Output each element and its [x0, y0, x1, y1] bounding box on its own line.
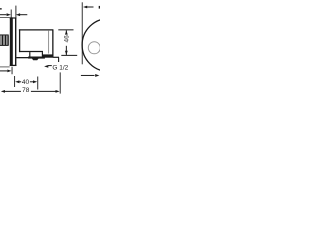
dim 78 left line: [5, 90, 21, 92]
outlet left wall: [29, 52, 31, 57]
in-wall fitting top edge: [0, 16, 10, 18]
dim 40 left extension line: [14, 76, 16, 87]
dim top-left value fragment: [0, 8, 2, 10]
dim 78 right line: [31, 90, 56, 92]
dim 40 left stub: [19, 81, 21, 83]
dim top-left right tail line: [20, 14, 28, 16]
body seam line: [48, 31, 50, 54]
wall surface extension line: [11, 67, 13, 74]
dim 78 right arrowhead: [56, 90, 60, 93]
escutcheon plate front edge: [15, 17, 17, 66]
hose outlet front circle: [88, 42, 100, 54]
front view tangent extension line: [81, 2, 83, 64]
dim 46 line lower: [65, 46, 67, 55]
G 1/2 leader tail: [48, 65, 52, 67]
dim top-left tail line: [0, 14, 6, 16]
dim 46 top extension line: [58, 29, 73, 31]
dim 40 left arrowhead: [15, 80, 19, 83]
wall hatch top line: [0, 34, 9, 36]
svg-text:G 1/2: G 1/2: [52, 64, 68, 71]
dim top-left left extension line: [10, 10, 12, 18]
wall hatch stripes: [1, 35, 8, 45]
body right edge: [52, 30, 54, 58]
dim 46 down arrowhead: [65, 51, 68, 55]
dim top-left right extension line: [15, 6, 17, 18]
top dim left arrowhead: [83, 6, 87, 9]
escutcheon plate top edge: [10, 17, 17, 19]
top dim line: [87, 6, 94, 8]
svg-text:78: 78: [22, 87, 30, 94]
dim top-left right-pointing arrowhead: [7, 13, 11, 16]
body top edge: [19, 29, 54, 31]
dim top-left left-pointing arrowhead: [16, 13, 20, 16]
bottom right dim arrowhead: [95, 74, 99, 77]
body left edge: [19, 29, 21, 52]
dim 40 right arrowhead: [33, 80, 37, 83]
dim 78 left arrowhead: [1, 90, 5, 93]
outlet dark band left: [28, 57, 45, 59]
svg-text:40: 40: [22, 79, 30, 86]
in-wall fitting bottom edge: [0, 66, 10, 68]
outlet right wall: [41, 52, 43, 57]
bottom right dim line: [81, 74, 95, 76]
dim 46 line upper: [65, 30, 67, 33]
wall surface arrow tail: [0, 70, 7, 72]
outlet dark band right: [43, 54, 54, 57]
wall hatch bottom line: [0, 44, 9, 46]
dim 40 right stub: [30, 81, 33, 83]
dim 46 up arrowhead: [65, 30, 68, 34]
svg-text:46: 46: [64, 35, 71, 43]
escutcheon front circle: [82, 19, 135, 72]
top dim text fragment: [99, 6, 100, 9]
dim 46 bottom extension line: [61, 54, 77, 56]
housing bottom edge right extension: [53, 56, 59, 58]
G 1/2 arrowhead: [44, 65, 48, 68]
body bottom edge: [19, 51, 43, 53]
lower housing bottom edge: [16, 57, 29, 59]
escutcheon plate bottom edge: [10, 64, 17, 66]
dim 40 right extension line: [37, 77, 39, 90]
wall surface arrowhead: [7, 70, 11, 73]
hose nut: [32, 59, 39, 61]
G 1/2 leader line: [58, 57, 60, 62]
dim 78 right extension line: [59, 72, 61, 93]
escutcheon plate wall edge (thick): [10, 17, 13, 66]
